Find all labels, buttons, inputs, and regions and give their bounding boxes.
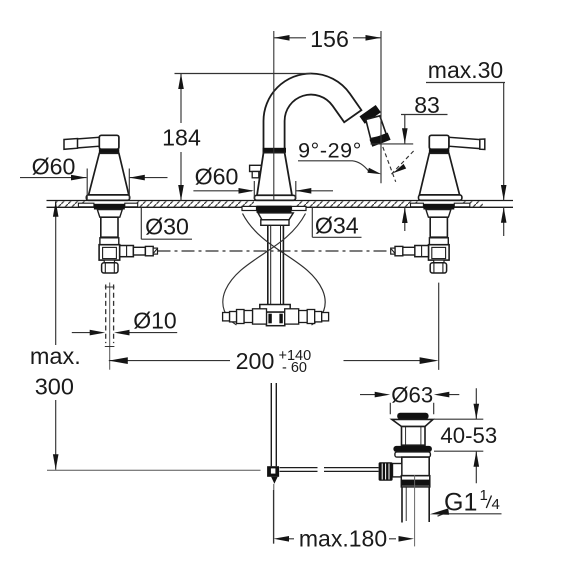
hose curve right-to-left (223, 214, 306, 326)
dimension 83 (401, 115, 448, 232)
svg-text:1: 1 (480, 487, 488, 504)
svg-text:156: 156 (310, 26, 349, 52)
drain flange (392, 419, 433, 426)
spout joint ring (263, 148, 286, 153)
aerator outlet band (370, 133, 391, 147)
spout gooseneck (264, 73, 362, 155)
svg-text:40-53: 40-53 (440, 423, 497, 448)
faucet body cone (257, 153, 292, 196)
faucet base plate (255, 195, 296, 200)
drain pop-up plug lid (397, 413, 428, 420)
svg-text:300: 300 (35, 374, 74, 400)
svg-text:max.: max. (30, 343, 81, 369)
T-fitting right arm (285, 309, 299, 324)
svg-text:200: 200 (236, 348, 275, 374)
pop-up linkage block (267, 466, 279, 477)
center mounting flange (257, 206, 292, 213)
svg-text:Ø60: Ø60 (32, 153, 76, 179)
dimension dia60 left handle (20, 169, 168, 200)
svg-text:max.30: max.30 (428, 57, 503, 83)
rod lower extension line (273, 484, 275, 544)
svg-text:9°-29°: 9°-29° (298, 139, 362, 163)
svg-text:max.180: max.180 (299, 526, 387, 552)
svg-text:83: 83 (414, 92, 440, 118)
dimension dia60 center body (193, 181, 333, 199)
label dia34 (312, 208, 361, 238)
drain centerline (414, 475, 416, 546)
dimension 200 +140 -60 (109, 283, 439, 370)
label G1 1/4 (438, 514, 502, 516)
countertop hatched section (55, 201, 87, 206)
angle dimension 9-29 degrees (298, 161, 369, 172)
horizontal actuator rod (280, 468, 379, 472)
dashed pop-up rod dia10 (106, 285, 114, 344)
dimension dia63 drain flange (360, 395, 459, 415)
drain coupling nut (401, 476, 430, 487)
drain lever connector (393, 464, 402, 477)
left handle (65, 137, 100, 149)
faucet centerline (273, 31, 275, 200)
drain body (402, 457, 429, 476)
drain lever knob (379, 462, 393, 480)
outlet reference line (371, 143, 414, 145)
right handle (449, 137, 484, 149)
svg-text:Ø34: Ø34 (315, 212, 359, 238)
drain seal ring (393, 446, 432, 452)
aerator joint band (360, 105, 381, 124)
dimension max.300 (55, 201, 57, 470)
T-fitting block (260, 305, 290, 313)
hose curve left-to-right (243, 214, 326, 326)
pop-up rod (271, 383, 276, 466)
dimension max.30 (426, 83, 505, 237)
svg-text:Ø60: Ø60 (195, 164, 239, 190)
drain tailpipe (402, 487, 429, 523)
drain lower ring (395, 452, 431, 457)
label dia30 (141, 208, 192, 240)
bottom reference line (47, 469, 261, 471)
drain neck (402, 427, 426, 446)
svg-text:Ø63: Ø63 (391, 382, 433, 407)
dimension dia10 (72, 332, 177, 334)
svg-text:184: 184 (162, 125, 201, 151)
svg-text:Ø10: Ø10 (133, 307, 176, 333)
svg-text:4: 4 (492, 496, 500, 513)
aerator cone (366, 116, 387, 139)
svg-text:Ø30: Ø30 (145, 214, 189, 240)
dimension 156 (274, 31, 381, 183)
svg-text:- 60: - 60 (282, 360, 307, 376)
dimension 40-53 (434, 388, 483, 483)
pop-up rod knob (250, 165, 264, 171)
center mounting nut (258, 213, 293, 220)
right valve body under counter (454, 203, 470, 207)
svg-text:G1: G1 (444, 489, 477, 517)
dimension 184 (175, 74, 312, 201)
left valve body under counter (78, 203, 94, 207)
dimension max.180 (274, 490, 397, 544)
T-fitting left arm (253, 309, 267, 324)
center mounting washer wings (242, 206, 257, 210)
under-counter centerline (158, 250, 392, 252)
center shank tube (268, 225, 284, 304)
